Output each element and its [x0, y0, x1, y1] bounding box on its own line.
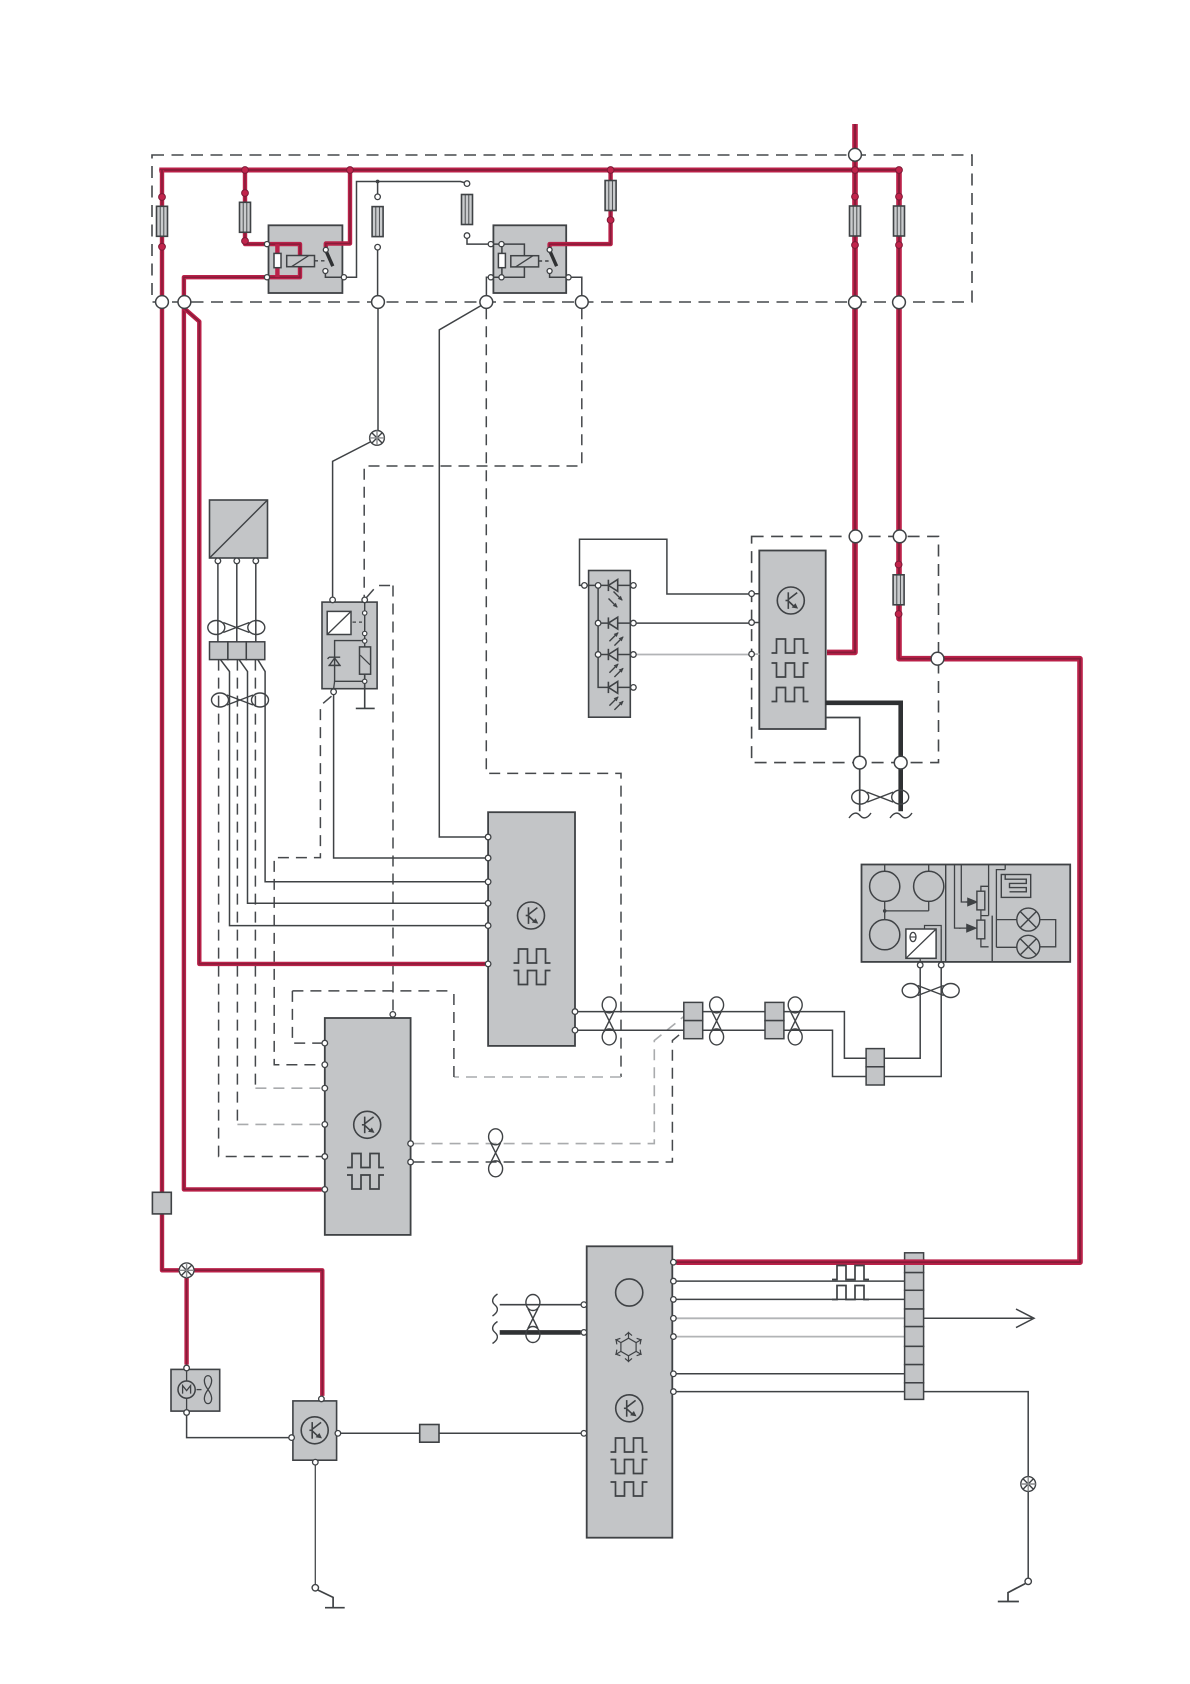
relay K1 dashed actuator link — [315, 260, 328, 262]
photodiode row 4 — [608, 682, 617, 694]
power stage transistor symbol — [301, 1417, 328, 1444]
relay K2 switch arm — [550, 252, 557, 267]
continuation arrow head — [1016, 1309, 1034, 1328]
pins of relay K1 — [264, 242, 346, 280]
ECU C square wave glyphs — [347, 1154, 384, 1168]
fuse F3 — [372, 207, 383, 237]
wire: strip to lamp and switch S1 — [924, 1392, 1029, 1579]
pins of ECU B — [485, 834, 577, 1033]
fuse FB — [894, 206, 905, 236]
ECU D indicator circle — [616, 1279, 643, 1306]
fuse F5 — [605, 181, 616, 211]
contact circles of switch S1 — [1025, 1578, 1031, 1584]
harness connector 3 cells — [210, 642, 265, 660]
lamp right-side link — [1040, 920, 1056, 947]
pins of ECU D — [581, 1259, 676, 1436]
ECU D square wave glyphs — [611, 1438, 648, 1452]
lamp feed wires — [996, 865, 1016, 948]
photodiode row 2 receive arrows — [609, 633, 618, 642]
pins of cluster theta sensor — [917, 962, 944, 968]
photodiode row 1 — [608, 580, 617, 592]
wire: ECU D right pin 3 to strip — [672, 1298, 904, 1300]
wire: fuse F3 bottom to border node — [377, 250, 379, 295]
switch S1 arm and ground G2 — [998, 1584, 1025, 1602]
wire: connector cell 2 solid to ECU B pin 4 — [239, 660, 485, 904]
ECU D box (bottom) — [587, 1246, 673, 1537]
lamp symbol bottom right — [1021, 1477, 1036, 1492]
splice symbol on red feed at bottom left — [179, 1263, 194, 1278]
red branch F2: through relay K1 coil, down to ECU C pin 6 — [184, 170, 322, 1189]
driver arrows — [966, 898, 977, 905]
driver feed wires — [955, 865, 968, 929]
wire: LED row3 to ECU A pin 3 (gray) — [636, 653, 759, 655]
photodiode row 2 — [608, 617, 617, 629]
wire: gray dashed segment y=1077 — [454, 1076, 621, 1078]
twist between connectors C2 and C3 — [710, 997, 724, 1045]
wire: motor to K-box — [187, 1416, 289, 1438]
wire: fuse F4 bottom to relay K2 coil — [467, 239, 488, 245]
wire: ECU B right pin 2 chain to cluster connector — [577, 1030, 866, 1076]
driver resistor 1 — [977, 891, 985, 910]
LED anode leads — [618, 585, 631, 687]
relay K1 switch arm — [326, 252, 333, 267]
wave glyph above ECU D wire 3 — [832, 1286, 869, 1300]
wire: relay K1 output to fuses F3/F4 node — [344, 182, 467, 278]
wire: cluster theta pins down to connector C4 — [884, 966, 941, 1077]
wire: dashed from connector cell 1 to ECU C pin 5 — [219, 660, 322, 1157]
wire: ECU D left pin 2 (thick black) — [500, 1330, 581, 1335]
relay K1 resistor — [274, 253, 281, 267]
ECU A dashed enclosure (upper right) — [752, 536, 939, 762]
wire: ECU D right pin 4 to strip (gray) — [672, 1317, 904, 1319]
sun sensor box — [210, 500, 268, 558]
gauge interconnect wires — [885, 865, 929, 920]
wire: K-box output through square connector to ECU D — [341, 1432, 581, 1434]
LED / photodiode unit box — [589, 571, 631, 718]
wire: connector cell 1 solid to ECU B pin 5 — [220, 660, 485, 926]
fuse FA — [850, 206, 861, 236]
valve internal node circles — [363, 611, 367, 615]
valve resistor — [360, 647, 371, 674]
gauge 1 — [870, 871, 900, 901]
wire: LED row1 to ECU A pin 1 — [580, 539, 760, 594]
gauge 2 — [914, 871, 944, 901]
wire: dashed variant from valve bottom pin to ECU C pin 2 — [274, 696, 331, 1064]
relay K2 box — [493, 225, 566, 293]
connector strip C5 (8 cells) — [905, 1253, 924, 1400]
power stage K-box — [293, 1401, 337, 1460]
wire: K-box bottom to switch S2 — [314, 1465, 316, 1585]
fuse/relay box dashed border — [152, 155, 972, 302]
wire: dashed from ECU C right pin 2 to connector C2 lower — [414, 1031, 684, 1162]
twist on ECU B right pair — [602, 997, 616, 1045]
relay K2 resistor — [501, 244, 503, 277]
wire: node 486.3 to ECU B pin 1 — [439, 306, 485, 838]
ECU B square wave glyphs — [514, 949, 551, 963]
red parallel resistor path inside relay K1 — [275, 244, 279, 277]
relay K1 box — [269, 225, 343, 293]
LED unit bus node circles — [595, 583, 601, 589]
wire: ECU A signal lead thin — [826, 718, 860, 812]
relay K1 coil — [287, 256, 315, 267]
wire: connector cell 3 solid to ECU B pin 3 — [258, 660, 486, 882]
pins of motor — [184, 1365, 190, 1415]
driver chain wires — [981, 865, 989, 947]
relay K1 switch contact circles — [323, 247, 328, 252]
wire: dashed feed from node 581.8 to valve top-right pin — [364, 308, 582, 597]
wire: node 378 down to splice — [377, 308, 379, 430]
heater element — [1001, 875, 1030, 898]
red branch F5: to relay K2 switch — [550, 170, 611, 247]
pins of LED unit — [582, 583, 637, 691]
relay K2 dashed actuator link — [539, 260, 552, 262]
contact circles of switch S2 — [312, 1585, 318, 1591]
pins of sun sensor — [215, 558, 259, 564]
twist on sensor harness lower — [212, 693, 269, 707]
twist after connector C3 — [788, 997, 802, 1045]
photodiode row 1 emit arrows — [614, 592, 623, 601]
relay K1 switch lower contact to output pin — [325, 273, 344, 277]
ECU D transistor symbol — [616, 1395, 643, 1422]
connector C4 at cluster (2 cells) — [866, 1049, 884, 1085]
relay K2 coil feed rails — [491, 244, 525, 277]
photodiode row 4 receive arrows — [609, 697, 618, 706]
motor M circle — [178, 1381, 195, 1398]
fuse F1 — [157, 206, 168, 236]
square connector on K-box output wire — [420, 1425, 439, 1443]
wire: ECU D right pin 7 to strip — [672, 1391, 904, 1393]
pins of valve unit — [330, 597, 368, 694]
wire: ECU A ground lead thick black — [826, 703, 901, 812]
wire: dashed horizontal y=990.9 — [292, 990, 454, 992]
photodiode row 3 — [608, 649, 617, 661]
twist on ECU A shielded pair — [852, 790, 909, 804]
instrument cluster box — [862, 865, 1071, 962]
connector C3 (2 cells) — [765, 1002, 784, 1038]
wire: relay K2 switch output to border node 581.8 — [572, 277, 582, 295]
motor internal lead — [186, 1371, 188, 1409]
switch S2 arm and ground G3 — [318, 1590, 345, 1608]
theta sensor box — [906, 926, 941, 959]
ECU C transistor symbol — [354, 1111, 381, 1138]
relay K2 switch lower contact to output pin — [550, 273, 567, 277]
twist on ECU D left pair — [526, 1295, 540, 1343]
fan figure-eight symbol — [204, 1376, 211, 1404]
warning lamp 2 — [1017, 935, 1040, 958]
ECU D snowflake symbol — [614, 1332, 644, 1362]
wire: gray dashed from ECU C right pin 1 to connector C2 upper — [414, 1017, 684, 1144]
wire: dashed riser x=453.9 — [453, 991, 455, 1077]
node circle on fuse box top border — [849, 148, 862, 161]
twist on ECU C right dashed pair — [489, 1129, 503, 1177]
twist below cluster theta pins — [902, 984, 959, 998]
valve internal vertical line — [364, 600, 366, 647]
valve zener diode — [328, 657, 341, 665]
wave glyph above ECU D wire 2 — [832, 1266, 869, 1280]
wire: dashed drop to ECU C pin 1 — [292, 991, 321, 1043]
valve inner square with diagonal — [327, 611, 351, 634]
wire: dashed stub from valve top-right pin up-right — [367, 586, 394, 598]
wire: relay K2 coil return to border node 486.3 — [486, 277, 487, 295]
cut mark under ECU A black lead — [890, 813, 912, 818]
pins of fuses F3/F4 — [375, 181, 470, 250]
theta box pin stubs — [920, 929, 941, 962]
link to fan — [197, 1389, 202, 1391]
valve coil loop — [335, 641, 365, 682]
wire: valve bottom pin to ECU B pin 2 — [334, 695, 486, 858]
ECU A transistor symbol — [777, 587, 804, 614]
splice symbol on switch feed wire — [370, 431, 385, 446]
fuse F2 — [240, 202, 251, 232]
wire: ECU D right pin 2 to strip — [672, 1280, 904, 1282]
relay K2 switch contact circles — [547, 247, 552, 252]
cut mark at ECU D thin lead end — [493, 1294, 498, 1316]
node circles on fuse box bottom border — [156, 148, 944, 769]
wire: dashed from connector cell 2 to ECU C pin 4 — [236, 660, 238, 1125]
wire: dashed from connector cell 3 to ECU C pin 3 — [254, 660, 256, 1089]
red feed A: battery stub through fuse FA into ECU A — [827, 124, 855, 652]
fuse FC — [893, 575, 904, 605]
ECU B transistor symbol — [518, 902, 545, 929]
valve inner dashed link — [353, 621, 363, 623]
red branch to relay K1 switch — [326, 170, 350, 247]
pins of K-box — [289, 1396, 341, 1465]
gauge 3 — [870, 920, 900, 950]
twist on sensor harness upper — [208, 621, 265, 635]
ECU A square wave glyphs — [772, 639, 809, 653]
junction dot at F3 tap — [376, 180, 380, 184]
wire: LED row2 to ECU A pin 2 — [636, 622, 759, 625]
red wire overlay across connector strip — [904, 1259, 926, 1265]
wire: splice to valve top-left pin — [333, 442, 372, 597]
solenoid valve unit box — [322, 602, 377, 689]
warning lamp 1 — [1017, 908, 1040, 931]
valve resistor lead down and ground G1 — [356, 674, 375, 708]
pins of ECU C — [322, 1012, 413, 1193]
wire: strip to continuation arrow — [924, 1317, 1032, 1319]
photodiode row 3 receive arrows — [609, 664, 618, 673]
LED unit internal bus — [584, 585, 608, 687]
wire: dashed vertical to ECU C top pin — [392, 586, 394, 1012]
fuse F4 — [462, 195, 473, 225]
pins of ECU A — [749, 591, 755, 657]
blower motor box — [171, 1369, 220, 1411]
node circles on ECU A enclosure — [849, 530, 862, 543]
square connector on red feed wire — [152, 1192, 171, 1214]
driver resistor 2 — [977, 920, 985, 939]
red branch F1: down left side to splice, K-box and motor — [162, 170, 322, 1396]
red bus in fuse box — [159, 168, 899, 173]
ECU C box (lower middle) — [325, 1018, 411, 1235]
wire: ECU D left pin 1 (thin, shielded) — [500, 1304, 581, 1306]
ECU A box (upper right) — [759, 551, 825, 730]
red branch from splice to motor — [184, 1270, 188, 1364]
connector C2 (2 cells) — [684, 1002, 703, 1038]
ECU B box (middle) — [488, 812, 575, 1046]
valve bottom-left pin lead — [334, 681, 335, 689]
cluster partitions — [946, 865, 993, 962]
wire: dashed from node 486.3 down, right, down (variant feed) — [486, 308, 621, 1077]
wire: sun sensor pin leads — [218, 564, 256, 642]
cut mark under ECU A thin lead — [849, 813, 871, 818]
red branch to ECU B pin 6 — [184, 309, 485, 964]
pins of relay K2 — [488, 242, 571, 280]
wire: ECU D right pin 5 to strip (gray) — [672, 1336, 904, 1338]
wire: ECU B right pin 1 chain to cluster connector — [577, 1012, 866, 1059]
cut mark at ECU D black lead end — [493, 1322, 498, 1344]
wire: ECU D right pin 6 to strip — [672, 1373, 904, 1375]
red feed B: through fuse FB and FC, right side down to ECU D pin 1 — [676, 170, 1080, 1262]
relay K2 coil — [511, 256, 539, 267]
